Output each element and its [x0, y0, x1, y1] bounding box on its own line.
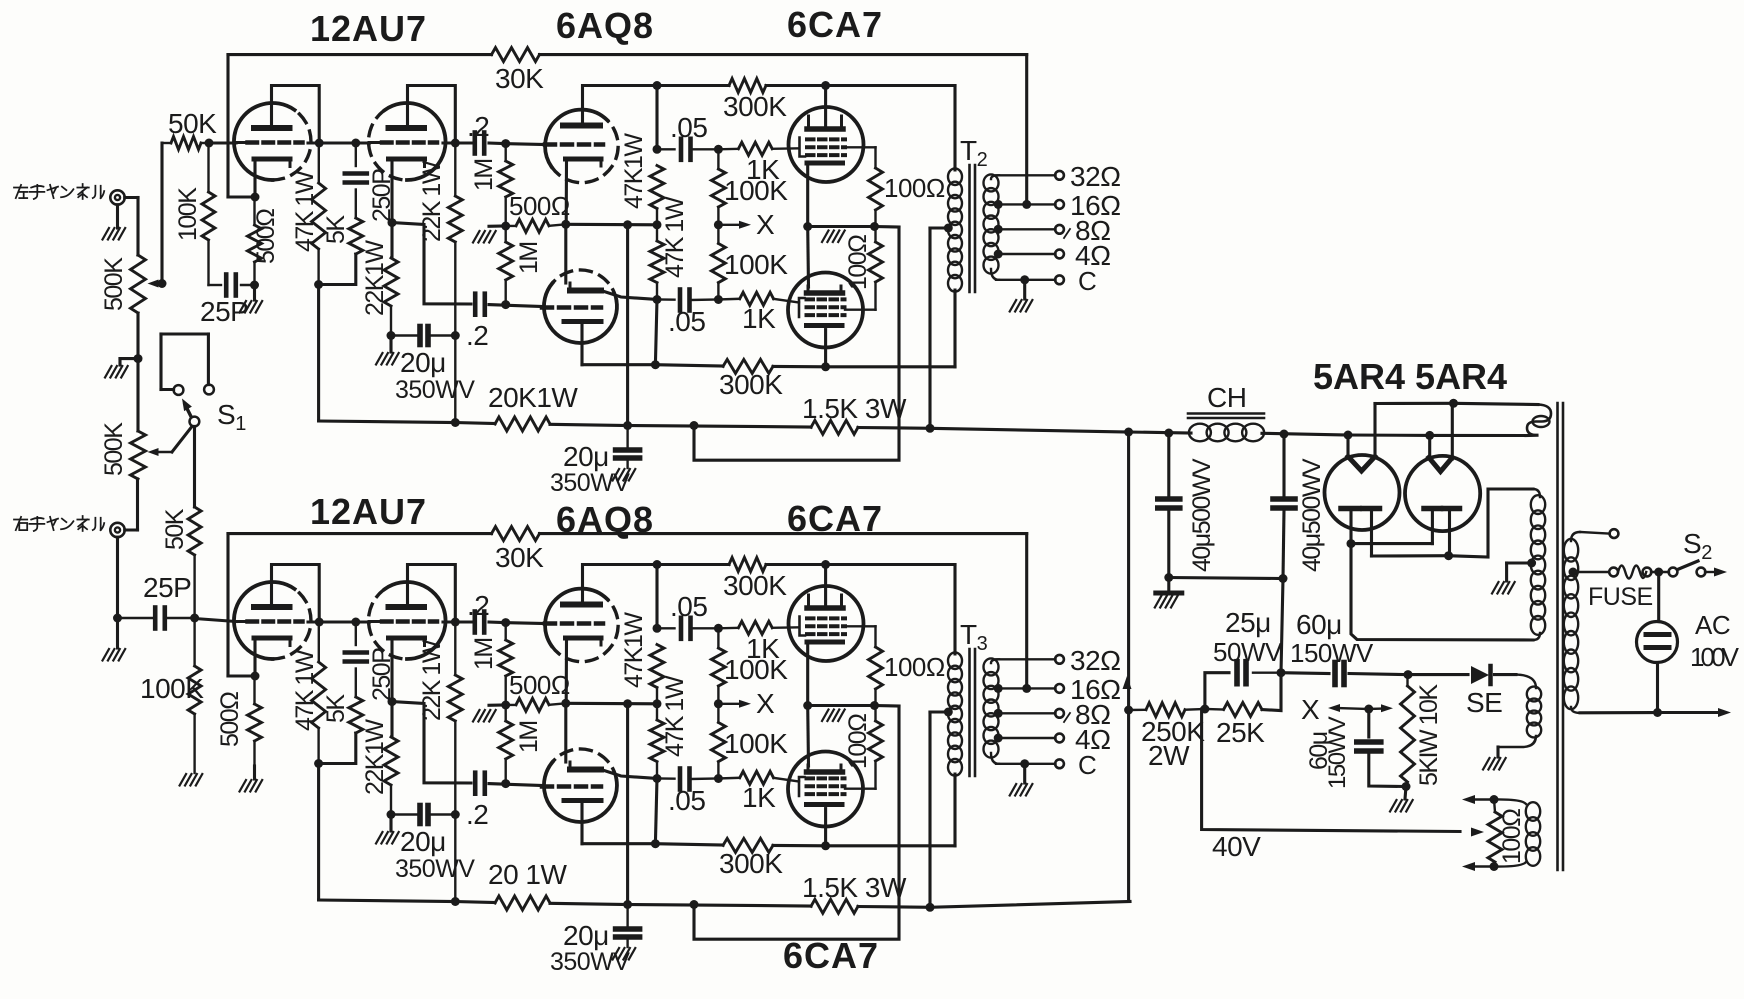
output tap C common (L) [996, 279, 1056, 281]
ground below jack1 [116, 205, 119, 228]
transformer T3 primary winding [948, 652, 962, 669]
svg-text:47K 1W: 47K 1W [661, 675, 689, 757]
resistor 300K lower (R) [723, 838, 773, 852]
capacitor 25u 50WV [1205, 673, 1229, 709]
svg-text:C: C [1078, 266, 1097, 296]
wire V1b cathode chain (R) [390, 639, 393, 737]
svg-text:1M: 1M [470, 159, 498, 191]
svg-text:100K: 100K [140, 673, 204, 704]
output tap 32 ohm (R) [996, 658, 1056, 660]
arrow wiper into 10K pot [1369, 707, 1385, 710]
pentode V4 6CA7 lower (R) [788, 752, 863, 827]
svg-text:12AU7: 12AU7 [310, 8, 427, 49]
junction mid node to rail drop (L) [623, 220, 632, 229]
svg-text:AC: AC [1695, 610, 1730, 640]
resistor 47K1W lower (L) [656, 225, 658, 241]
capacitor 20u 350WV main (R) [626, 905, 628, 928]
wire V2b grid entry (R) [489, 784, 542, 786]
svg-text:20μ: 20μ [400, 826, 446, 857]
potentiometer 500K (lower volume pot) [131, 431, 146, 479]
wire NFB drop to 16ohm tap (R) [1025, 534, 1028, 689]
wire screen node to loop corner (L) [875, 225, 900, 229]
wire plate row to T primary bottom (L) [826, 365, 955, 368]
triode V2b 6AQ8 (L) [544, 283, 617, 343]
svg-text:1M: 1M [515, 242, 543, 274]
svg-text:12AU7: 12AU7 [310, 491, 427, 532]
wire 47K to 300K lower (R) [655, 779, 657, 844]
wire plate line to T primary top (R) [821, 560, 830, 569]
capacitor 20u 350WV main (L) [626, 426, 628, 449]
svg-text:30K: 30K [495, 63, 544, 94]
output tap 32 ohm (L) [996, 174, 1056, 176]
wire V1b plate loop (L) [408, 86, 456, 144]
wiper arrow of upper 500K pot [153, 282, 162, 284]
svg-text:22K1W: 22K1W [361, 240, 389, 316]
power transformer 6.3V heater winding [1494, 799, 1526, 804]
svg-text:47K 1W: 47K 1W [661, 196, 689, 278]
resistor 1M upper (L) [505, 144, 507, 161]
junction rail at CT drop (L) [926, 424, 935, 433]
svg-text:350WV: 350WV [550, 948, 630, 976]
svg-text:60μ: 60μ [1296, 609, 1342, 640]
resistor 300K upper (L) [657, 84, 729, 87]
resistor 100K upper bias (L) [717, 149, 719, 169]
junction 6CA7 lower plate node (R) [821, 841, 830, 850]
wire cathode return loop (L) [694, 227, 899, 460]
svg-text:6AQ8: 6AQ8 [556, 5, 654, 46]
resistor 1K lower (R) [718, 777, 739, 780]
svg-text:300K: 300K [719, 848, 783, 879]
resistor 100K grid leak (right) [193, 618, 195, 666]
ground at tap C (R) [1023, 764, 1026, 783]
wire 47K node to 500ohm node (R) [566, 702, 657, 706]
pentode V3 6CA7 upper (R) [789, 586, 864, 661]
ground below 22K1W (L) [389, 336, 392, 353]
triode V1b 12AU7 (L) [385, 103, 446, 180]
triode V2b 6AQ8 (R) [544, 762, 617, 822]
svg-text:22K 1W: 22K 1W [418, 639, 446, 721]
power transformer HV secondary winding [1533, 489, 1540, 497]
svg-text:47K 1W: 47K 1W [291, 170, 319, 252]
transformer T3 primary CT tap [944, 708, 953, 717]
resistor 22K1W cathode V1b (R) [384, 737, 398, 785]
svg-text:22K1W: 22K1W [361, 719, 389, 795]
resistor 100K upper bias (R) [717, 628, 719, 648]
junction .2 to 1M node (R) [501, 618, 510, 627]
svg-text:500K: 500K [100, 257, 128, 311]
wire grid bus 12AU7 (R) [308, 620, 370, 623]
wire V2b cathode down (L) [580, 322, 583, 365]
svg-text:100Ω: 100Ω [884, 652, 945, 682]
capacitor .05 upper (R) [657, 627, 675, 629]
resistor 500 ohm input cathode (L) [253, 197, 255, 225]
resistor 100ohm screen upper (R) [845, 625, 876, 627]
svg-text:.05: .05 [668, 785, 705, 816]
wire B+ rail PSU section [1129, 432, 1191, 433]
choke CH winding [1189, 424, 1211, 442]
resistor 100ohm screen lower (R) [874, 706, 876, 722]
junction 250P tap (R) [351, 618, 360, 627]
wire NFB drop to 16ohm tap (L) [1025, 55, 1028, 205]
svg-text:500Ω: 500Ω [509, 670, 570, 700]
svg-text:500Ω: 500Ω [509, 191, 570, 221]
wire cathode-follower link (R) [392, 702, 471, 783]
output tap 8 ohm (R) [994, 709, 1003, 718]
transformer T2 secondary winding [984, 174, 999, 191]
svg-text:100K: 100K [724, 728, 788, 759]
SE rectifier diode [1471, 666, 1489, 684]
wire V2a grid entry (R) [506, 621, 545, 625]
resistor 1M lower (L) [505, 226, 507, 242]
junction .05 to 1K node upper (R) [714, 624, 723, 633]
fuse [1609, 568, 1618, 577]
svg-text:5AR4 5AR4: 5AR4 5AR4 [1313, 356, 1507, 397]
svg-text:1.5K 3W: 1.5K 3W [802, 393, 907, 424]
resistor 500 ohm 6AQ8 cathode (L) [506, 225, 516, 228]
wire common cathode link (R) [806, 645, 809, 706]
capacitor 250P (L) [355, 143, 357, 166]
junction 250K-25K node [1200, 705, 1209, 714]
wire screen node to loop corner (R) [875, 704, 900, 708]
resistor 100K lower bias (L) [717, 225, 719, 244]
AC output arrow upper [1705, 571, 1718, 573]
capacitor .05 lower (R) [657, 777, 675, 780]
svg-text:40μ500WV: 40μ500WV [1298, 458, 1326, 572]
svg-text:25μ: 25μ [1225, 607, 1271, 638]
wire jack1 to volume pot [125, 196, 138, 199]
svg-text:5K: 5K [322, 215, 350, 244]
wire 5AR4 plate bus upper [1349, 511, 1352, 544]
potentiometer 5K1W 10K [1406, 675, 1408, 686]
wire rail extension to PSU (L) [930, 428, 1129, 432]
potentiometer 500K (upper volume pot) [131, 255, 146, 313]
resistor 20K1W rail (R) [495, 896, 550, 910]
primary fuse tap [1569, 568, 1578, 577]
wire cathode node row (R) [808, 704, 875, 707]
switch S1 (selector) [174, 385, 184, 395]
wire S1 common down to 50K-2 [193, 426, 196, 507]
junction bias wiper node [1364, 705, 1373, 714]
capacitor 60u 150WV first [1277, 668, 1286, 677]
resistor 47K1W lower (R) [656, 704, 658, 720]
resistor 1M upper (R) [505, 623, 507, 640]
svg-text:50WV: 50WV [1213, 637, 1283, 667]
junction NFB at 16 ohm (L) [1022, 200, 1031, 209]
output tap 8 ohm (L) [994, 225, 1003, 234]
capacitor 40u 500WV second [1282, 434, 1285, 497]
svg-text:SE: SE [1466, 687, 1502, 718]
wire 47K node down to B+ rail corner (R) [317, 764, 320, 901]
capacitor 25P bridge [209, 284, 222, 286]
svg-text:30K: 30K [495, 542, 544, 573]
svg-text:47K 1W: 47K 1W [291, 649, 319, 731]
svg-text:.2: .2 [466, 320, 488, 351]
output tap 4 ohm (R) [994, 734, 1003, 743]
svg-text:50K: 50K [161, 508, 189, 550]
resistor 500 ohm 6AQ8 cathode (R) [506, 704, 516, 706]
resistor 500 ohm input cathode (R) [253, 676, 255, 704]
wire V2b plate to .05 node (R) [601, 770, 657, 779]
wire filter cap link [1169, 578, 1283, 579]
triode V1b 12AU7 (R) [385, 582, 446, 659]
wire cathode-follower link (L) [392, 223, 471, 304]
wire 47K to 300K lower (L) [655, 300, 657, 365]
wire 5AR4 filament return top line [1375, 402, 1454, 405]
svg-text:300K: 300K [723, 91, 787, 122]
junction .2 to 1M node (L) [501, 139, 510, 148]
junction input node right channel [190, 614, 199, 623]
power transformer primary winding [1564, 539, 1578, 562]
svg-text:500K: 500K [100, 422, 128, 476]
junction rail at CT drop (R) [926, 903, 935, 912]
wire V3 plate riser (R) [824, 565, 827, 606]
capacitor .2 lower (L) [473, 294, 478, 315]
svg-text:150WV: 150WV [1324, 716, 1351, 789]
output tap 16 ohm (L) [994, 200, 1003, 209]
wire pot1 lower lead and ground tee [136, 313, 139, 431]
arrow X test point (R) [718, 703, 743, 705]
wire B+ rail (L) [319, 421, 456, 423]
svg-text:.05: .05 [670, 591, 707, 622]
svg-text:2W: 2W [1148, 740, 1190, 771]
ground below 22K1W (R) [389, 815, 392, 832]
wire feed drop to .05 node (L) [655, 86, 658, 150]
wire second cap down to 25u node [1281, 579, 1283, 673]
wire mid node drop to rail (L) [626, 225, 629, 426]
power transformer bias winding [1527, 687, 1541, 702]
svg-text:500Ω: 500Ω [252, 209, 280, 264]
svg-text:350WV: 350WV [395, 855, 475, 883]
primary top tap [1571, 532, 1580, 541]
HV center tap to ground [1527, 559, 1536, 568]
wire 47K node to 500ohm node (L) [566, 223, 657, 227]
choke CH core [1188, 412, 1264, 415]
primary bottom line [1571, 707, 1580, 713]
capacitor .2 lower (R) [473, 773, 478, 794]
capacitor .05 lower (L) [657, 298, 675, 301]
svg-text:50K: 50K [168, 108, 217, 139]
wire V1a cathode lead (R) [253, 639, 256, 676]
wire common cathode link (L) [806, 166, 809, 227]
resistor 47K1W upper (L) [650, 166, 664, 209]
wire 40V tap line [1202, 709, 1460, 832]
svg-text:22K 1W: 22K 1W [418, 160, 446, 242]
svg-text:CH: CH [1207, 382, 1246, 413]
pentode V3 6CA7 upper (L) [789, 107, 864, 182]
svg-text:.2: .2 [467, 111, 489, 142]
wire jack2 to pot2 bottom [125, 528, 138, 531]
output tap 4 ohm (L) [994, 250, 1003, 259]
wire V2b plate riser (R) [564, 703, 567, 762]
svg-text:500Ω: 500Ω [216, 692, 244, 747]
svg-text:25P: 25P [143, 572, 191, 603]
resistor 5K (R) [349, 697, 363, 733]
resistor 22K1W plate load V1b (L) [454, 143, 456, 196]
hum balance pot 100 ohm [1488, 812, 1502, 862]
AC output arrow lower [1718, 708, 1731, 717]
arrow 40V into hum pot [1471, 828, 1484, 837]
AC plug symbol [1637, 622, 1678, 663]
resistor 300K upper (R) [657, 563, 729, 566]
wire bias line to winding [1408, 673, 1468, 676]
junction 6CA7 lower plate node (L) [821, 362, 830, 371]
wire NFB loop top line (R) [228, 532, 492, 535]
wire pot1 wiper riser to 50K [160, 143, 163, 284]
junction mid node to rail drop (R) [623, 699, 632, 708]
svg-text:20K1W: 20K1W [488, 382, 578, 413]
capacitor .2 coupling upper (L) [472, 133, 477, 154]
text label: left channel (Japanese) [14, 187, 27, 189]
wire cathode node row (L) [808, 225, 875, 228]
ground stub at 1M junction (R) [489, 703, 506, 706]
arrow X test point (L) [718, 224, 743, 226]
svg-text:300K: 300K [719, 369, 783, 400]
wire V1a cathode lead (L) [253, 160, 256, 197]
svg-text:47K1W: 47K1W [620, 133, 648, 209]
capacitor 60u 150WV second (bias) [1367, 709, 1370, 737]
resistor 20K1W rail (L) [495, 417, 550, 431]
svg-text:6CA7: 6CA7 [783, 935, 879, 976]
switch S2 [1669, 568, 1678, 577]
resistor 47K1W upper (R) [650, 645, 664, 688]
capacitor 20u 350WV (V1b stage) (R) [391, 813, 417, 815]
resistor 1K upper (R) [718, 627, 738, 630]
svg-text:100V: 100V [1690, 642, 1740, 672]
resistor 25K [1205, 708, 1224, 711]
svg-text:X: X [756, 688, 775, 719]
svg-text:X: X [756, 209, 775, 240]
wire V2a grid entry (L) [506, 142, 545, 146]
resistor 100K grid leak [207, 143, 209, 192]
svg-text:32Ω: 32Ω [1070, 645, 1121, 676]
ground below jack2 node [116, 618, 119, 648]
svg-text:20 1W: 20 1W [488, 859, 567, 890]
triode V2a 6AQ8 (L) [545, 110, 607, 167]
triode V1a 12AU7 (R) [234, 582, 295, 659]
capacitor 250P (R) [355, 622, 357, 645]
junction wiper node [158, 279, 167, 288]
transformer T2 core [968, 165, 971, 292]
wire mid node drop to rail (R) [626, 704, 629, 905]
svg-text:100K: 100K [724, 654, 788, 685]
triode V1a 12AU7 (L) [234, 103, 295, 180]
wire feed drop to .05 node (R) [655, 565, 658, 629]
wire input node to 12AU7 grid (right) [195, 619, 236, 622]
wire AC plug leads [1657, 572, 1660, 622]
pentode V4 6CA7 lower (L) [788, 273, 863, 348]
svg-text:X: X [1301, 694, 1320, 725]
ground below input 500 ohm (L) [253, 287, 256, 300]
wire S1 left throw to pot1 riser [161, 388, 174, 391]
svg-text:.2: .2 [466, 799, 488, 830]
svg-text:1K: 1K [742, 782, 776, 813]
wire 5AR4 plate bus lower [1370, 511, 1373, 556]
rectifier 5AR4 second [1405, 456, 1480, 531]
svg-text:1K: 1K [742, 303, 776, 334]
junction AC plug node [1654, 568, 1663, 577]
resistor 1.5K 3W rail (R) [811, 899, 858, 913]
wire 300K lower row (L) [582, 363, 655, 366]
svg-text:20μ: 20μ [563, 920, 609, 951]
svg-text:100K: 100K [724, 249, 788, 280]
svg-text:350WV: 350WV [550, 469, 630, 497]
svg-text:100Ω: 100Ω [884, 173, 945, 203]
svg-text:25K: 25K [1216, 717, 1265, 748]
capacitor 20u 350WV (V1b stage) (L) [391, 334, 417, 336]
svg-text:.05: .05 [670, 112, 707, 143]
wire V3 plate riser (L) [824, 86, 827, 127]
svg-text:40V: 40V [1212, 831, 1261, 862]
svg-text:100K: 100K [174, 187, 202, 241]
wire B+ rail (R) [319, 900, 456, 902]
wire V1a plate loop (R) [272, 565, 320, 623]
wire 300K lower row (R) [582, 842, 655, 845]
junction 250P tap (L) [351, 139, 360, 148]
wire plate line to T primary top (L) [821, 81, 830, 90]
svg-text:6CA7: 6CA7 [787, 4, 883, 45]
wire V2a plate feed (L) [583, 86, 658, 126]
junction jack2 node [113, 614, 122, 623]
resistor 50K (right channel, from S1) [188, 507, 201, 555]
svg-text:100Ω: 100Ω [844, 714, 872, 769]
resistor 100ohm screen lower (L) [874, 227, 876, 243]
wire V2b grid entry (L) [489, 305, 542, 307]
capacitor 40u 500WV first [1167, 433, 1170, 497]
transformer T3 core [968, 649, 971, 776]
resistor 250K 2W [1129, 709, 1146, 712]
capacitor .05 upper (L) [657, 148, 675, 150]
input jack J2 (right channel) [110, 523, 124, 537]
wire V2b cathode down (R) [580, 801, 583, 844]
transformer T2 primary winding [948, 168, 962, 185]
svg-text:5K: 5K [322, 694, 350, 723]
junction 50K right node [205, 139, 214, 148]
power transformer 5V single-turn loop [1527, 405, 1551, 436]
text label: right channel (Japanese) [14, 519, 27, 521]
wire first plate pair to HV bottom [1351, 544, 1533, 640]
svg-text:1M: 1M [515, 721, 543, 753]
svg-text:1M: 1M [470, 638, 498, 670]
transformer T3 secondary winding [984, 658, 999, 675]
wire cathode return loop (R) [694, 706, 899, 939]
transformer T2 primary CT tap [944, 224, 953, 233]
resistor 100ohm screen upper (L) [845, 146, 876, 148]
svg-text:5KIW 10K: 5KIW 10K [1415, 684, 1443, 786]
junction 47K1W bottom node (L) [314, 280, 323, 289]
svg-text:150WV: 150WV [1290, 638, 1374, 668]
svg-text:.05: .05 [668, 306, 705, 337]
rectifier 5AR4 first [1325, 455, 1400, 530]
triode V2a 6AQ8 (R) [545, 589, 607, 646]
resistor 30K feedback (L) [492, 48, 540, 62]
svg-text:350WV: 350WV [395, 376, 475, 404]
ground stub at 1M junction (L) [489, 224, 506, 227]
resistor 1M lower (R) [505, 705, 507, 721]
wiper arrow of lower 500K pot [153, 451, 172, 453]
bias winding bottom to ground [1498, 736, 1536, 747]
wire V2a cathode drop (L) [565, 161, 568, 224]
wire grid bus 12AU7 (L) [209, 141, 236, 144]
svg-text:FUSE: FUSE [1588, 583, 1653, 611]
junction .05 to 1K node upper (L) [714, 145, 723, 154]
wire B+ riser between channels [1127, 432, 1130, 710]
wire V2b plate to .05 node (L) [601, 291, 657, 300]
resistor 100K lower bias (R) [717, 704, 719, 723]
svg-text:20μ: 20μ [563, 441, 609, 472]
svg-text:47K1W: 47K1W [620, 612, 648, 688]
wire V1b cathode chain (L) [390, 160, 393, 258]
wire 47K node down to B+ rail corner (L) [317, 285, 320, 422]
